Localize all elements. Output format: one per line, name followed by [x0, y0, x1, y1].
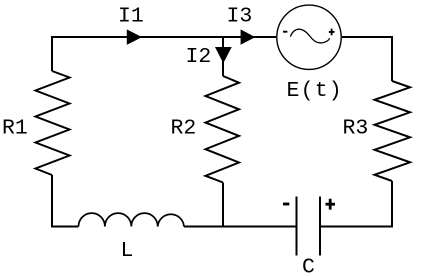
source E(t) circle [277, 5, 341, 69]
inductor L [79, 213, 185, 226]
wire right vertical upper [391, 36, 393, 81]
source plus sign [329, 29, 335, 36]
wire top-left horizontal [52, 36, 276, 38]
wire top-right horizontal [342, 36, 392, 38]
wire bottom right (capacitor to R3) [320, 226, 393, 228]
current arrow I1 [127, 29, 142, 44]
svg-text:R1: R1 [2, 117, 28, 141]
capacitor C left plate [296, 197, 298, 256]
resistor R3 [375, 81, 411, 181]
resistor R2 [206, 76, 240, 183]
wire bottom-left to inductor [51, 226, 79, 228]
svg-text:I3: I3 [227, 5, 253, 29]
wire middle vertical lower (R2 bottom to bottom-wire junction) [222, 183, 224, 227]
current arrow I2 [215, 47, 232, 63]
capacitor plus sign [326, 199, 336, 210]
resistor R1 [36, 71, 70, 175]
wire middle vertical upper (top junction at node with I2 branch, down to R2) [222, 37, 224, 76]
wire right vertical lower [391, 181, 393, 227]
svg-text:R3: R3 [343, 117, 369, 141]
svg-text:E(t): E(t) [287, 79, 343, 103]
svg-text:R2: R2 [171, 117, 197, 141]
wire left vertical lower [51, 175, 53, 227]
current arrow I3 [241, 29, 256, 44]
wire left vertical upper [51, 36, 53, 71]
capacitor C right plate [319, 197, 321, 256]
source sine wave [290, 29, 329, 43]
svg-text:C: C [302, 256, 315, 277]
svg-text:L: L [121, 239, 134, 263]
wire bottom middle (inductor to capacitor) [184, 226, 297, 228]
source minus sign [283, 31, 287, 33]
svg-text:I1: I1 [118, 5, 144, 29]
capacitor minus sign [283, 203, 289, 206]
svg-text:I2: I2 [186, 45, 212, 69]
